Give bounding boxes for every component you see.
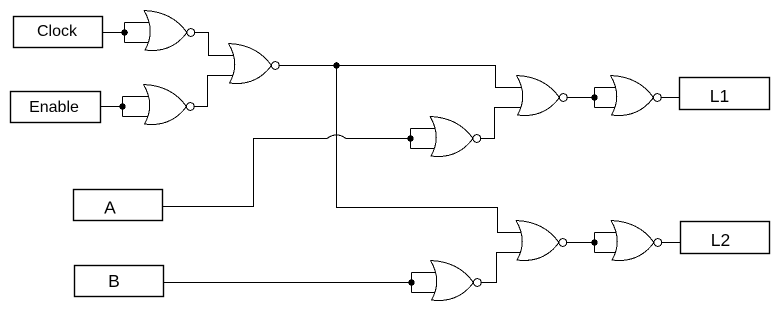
svg-text:L1: L1: [710, 86, 729, 106]
svg-text:Clock: Clock: [37, 23, 78, 40]
svg-text:B: B: [108, 271, 120, 291]
svg-text:Enable: Enable: [29, 99, 79, 116]
svg-text:L2: L2: [711, 230, 730, 250]
svg-text:A: A: [104, 198, 116, 218]
